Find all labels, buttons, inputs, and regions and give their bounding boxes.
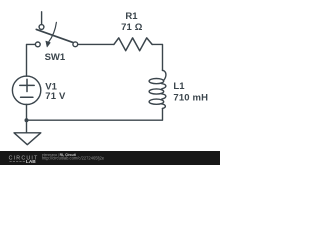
ground: [14, 133, 41, 145]
footer logo CIRCUIT LAB: [9, 155, 39, 165]
wire: [41, 12, 43, 25]
wire: [78, 43, 114, 45]
wire: [26, 105, 28, 121]
svg-text:L1: L1: [173, 81, 185, 92]
wire: [27, 108, 163, 120]
footer text: [42, 153, 105, 161]
svg-text:R1: R1: [125, 11, 138, 22]
wire: [27, 44, 36, 76]
svg-text:http://circuitlab.com/c/227246: http://circuitlab.com/c/2272465fj2e: [42, 156, 105, 161]
svg-text:710 mH: 710 mH: [173, 92, 208, 103]
svg-text:71 Ω: 71 Ω: [121, 22, 143, 33]
switch SW1: [35, 22, 77, 47]
wire: [152, 44, 162, 70]
svg-text:SW1: SW1: [45, 52, 66, 63]
voltage source V1: [12, 76, 40, 104]
wire: [26, 120, 28, 133]
footer bar: [0, 151, 220, 165]
node junction: [25, 118, 29, 122]
svg-text:71 V: 71 V: [45, 91, 66, 102]
svg-text:LAB: LAB: [26, 159, 36, 165]
resistor R1: [114, 38, 152, 51]
inductor L1: [149, 70, 166, 108]
